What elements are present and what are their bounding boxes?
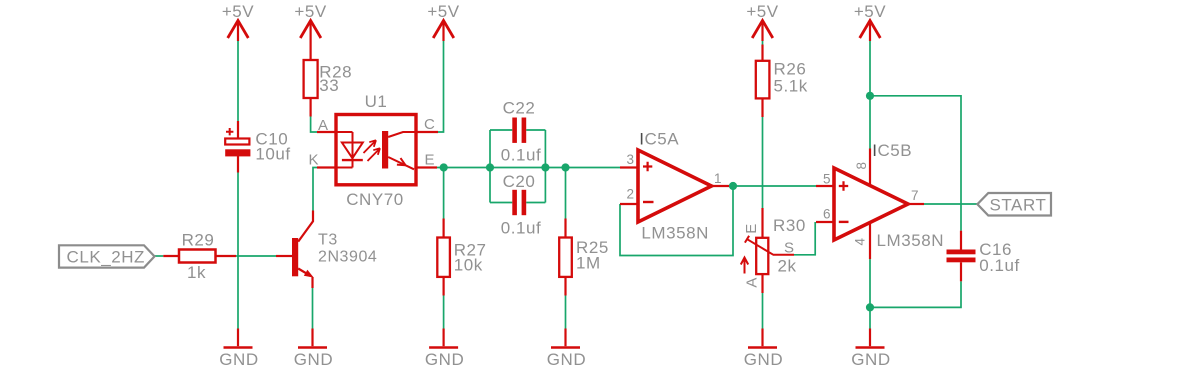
- op-amp IC5A LM358N: [620, 130, 729, 243]
- svg-text:GND: GND: [219, 350, 258, 369]
- svg-text:0.1uf: 0.1uf: [979, 256, 1020, 275]
- wire net from U1 pin E to IC5A pin 3 (main horizontal net): [436, 167, 620, 169]
- light arrows inside U1: [364, 140, 377, 153]
- resistor R26 5.1k: [756, 45, 808, 118]
- optocoupler U1 CNY70: [308, 92, 438, 209]
- wire R30 pin A to GND: [762, 293, 764, 329]
- svg-text:C: C: [424, 116, 435, 133]
- wire U1 pin K to T3 collector: [313, 168, 317, 211]
- svg-text:2N3904: 2N3904: [318, 249, 377, 266]
- svg-text:33: 33: [319, 76, 339, 95]
- svg-text:1: 1: [714, 171, 722, 186]
- svg-text:10uf: 10uf: [255, 144, 290, 163]
- svg-text:E: E: [743, 223, 760, 234]
- svg-text:8: 8: [854, 161, 869, 169]
- adjustment arrow: [744, 260, 746, 274]
- capacitor C20 0.1uf: [501, 172, 542, 238]
- +5V supply symbol at x=310.6: [294, 2, 326, 45]
- svg-text:5: 5: [823, 171, 831, 186]
- ground symbol at x=565.5: [547, 329, 586, 370]
- junction node at IC5A output: [729, 182, 737, 190]
- wire U1 pin C to +5V at x=443.5: [438, 41, 444, 132]
- svg-text:START: START: [990, 196, 1047, 215]
- svg-text:U1: U1: [365, 92, 388, 111]
- svg-text:R29: R29: [182, 231, 215, 250]
- wire C16 to bottom rail and IC5B pin 4 junction: [870, 281, 961, 307]
- svg-text:IC5A: IC5A: [639, 130, 679, 149]
- svg-text:LM358N: LM358N: [641, 224, 709, 243]
- wire R27 branch: [443, 168, 445, 329]
- svg-text:A: A: [744, 277, 761, 288]
- ground symbol at x=443.6: [425, 329, 464, 370]
- +5V supply symbol at x=870: [854, 2, 886, 41]
- op-amp IC5B LM358N: [816, 141, 944, 259]
- svg-text:IC5B: IC5B: [872, 141, 912, 160]
- svg-text:2: 2: [626, 187, 634, 202]
- LED inside U1: [336, 132, 353, 168]
- svg-text:GND: GND: [744, 350, 783, 369]
- capacitor C10 10uf (polarized): [225, 121, 290, 173]
- ground symbol at x=238: [219, 329, 258, 370]
- svg-text:GND: GND: [851, 350, 890, 369]
- capacitor C22 0.1uf: [501, 99, 542, 165]
- wire +5V to IC5B pin 8 junction: [869, 41, 871, 149]
- svg-text:GND: GND: [294, 350, 333, 369]
- svg-text:K: K: [308, 152, 319, 169]
- svg-text:0.1uf: 0.1uf: [501, 219, 542, 238]
- svg-text:5.1k: 5.1k: [774, 77, 808, 96]
- svg-text:C22: C22: [503, 99, 536, 118]
- net flag CLK_2HZ: [59, 245, 155, 267]
- svg-text:E: E: [425, 152, 436, 169]
- svg-text:3: 3: [626, 152, 634, 167]
- svg-text:CNY70: CNY70: [346, 190, 404, 209]
- svg-text:6: 6: [823, 206, 831, 221]
- resistor R25 1M: [559, 219, 609, 296]
- svg-text:7: 7: [911, 188, 919, 203]
- svg-text:1k: 1k: [187, 263, 206, 282]
- ground symbol at x=313: [294, 329, 333, 370]
- wire R25 branch: [565, 168, 567, 329]
- wire +5V through R26 down to R30 pin E: [762, 41, 764, 208]
- svg-text:C20: C20: [503, 172, 536, 191]
- wire top rail junction to C16: [870, 96, 961, 231]
- svg-text:2k: 2k: [778, 257, 797, 276]
- svg-text:1M: 1M: [576, 254, 601, 273]
- wire R30 wiper S to IC5B pin 6: [794, 222, 815, 255]
- svg-text:10k: 10k: [454, 256, 483, 275]
- wiper diagonal and S lead: [747, 239, 794, 255]
- ground symbol at x=870: [851, 329, 890, 370]
- +5V supply symbol at x=238: [222, 2, 254, 41]
- +5V supply symbol at x=443.5: [427, 2, 459, 41]
- svg-text:GND: GND: [425, 350, 464, 369]
- junction node at IC5B pin 8 rail: [866, 92, 874, 100]
- potentiometer R30 2k: [741, 208, 806, 293]
- wire +5V rail to C10 and C10 to GND at x=238: [237, 41, 239, 329]
- svg-text:4: 4: [853, 237, 868, 245]
- wire IC5A output to IC5B pin 5: [733, 185, 816, 187]
- wire R28 to U1 pin A: [311, 116, 317, 132]
- wire capacitor block C22/C20 frame: [490, 130, 545, 203]
- pin stubs: [317, 132, 438, 168]
- wire net CLK_2HZ from flag to R29 and T3 base: [155, 255, 277, 257]
- svg-text:T3: T3: [318, 232, 338, 249]
- transistor T3 2N3904: [276, 211, 377, 289]
- wire T3 emitter to GND: [312, 288, 314, 329]
- svg-text:LM358N: LM358N: [877, 231, 945, 250]
- svg-text:R30: R30: [773, 216, 806, 235]
- capacitor C16 0.1uf: [947, 231, 1020, 282]
- junction node at C22/C20 right: [541, 163, 549, 171]
- svg-text:S: S: [784, 240, 795, 257]
- svg-text:A: A: [318, 117, 329, 134]
- svg-text:GND: GND: [547, 350, 586, 369]
- ground symbol at x=762.5: [744, 329, 783, 370]
- wire IC5A feedback output to pin 2: [620, 186, 733, 256]
- junction node at IC5B pin 4 rail: [866, 303, 874, 311]
- resistor R29 1k: [163, 231, 236, 283]
- resistor R27 10k: [437, 219, 486, 296]
- junction node at R25 top: [561, 163, 569, 171]
- svg-text:CLK_2HZ: CLK_2HZ: [67, 248, 146, 267]
- phototransistor inside U1: [382, 131, 388, 169]
- wire IC5B pin 4 to GND: [869, 259, 871, 328]
- resistor R28 33: [304, 45, 353, 117]
- svg-text:0.1uf: 0.1uf: [501, 146, 542, 165]
- junction node at C22/C20 left: [486, 163, 494, 171]
- wire IC5B output to START flag: [922, 203, 977, 205]
- junction node at U1 pin E: [440, 163, 448, 171]
- +5V supply symbol at x=762.5: [746, 2, 778, 41]
- net flag START: [977, 193, 1051, 216]
